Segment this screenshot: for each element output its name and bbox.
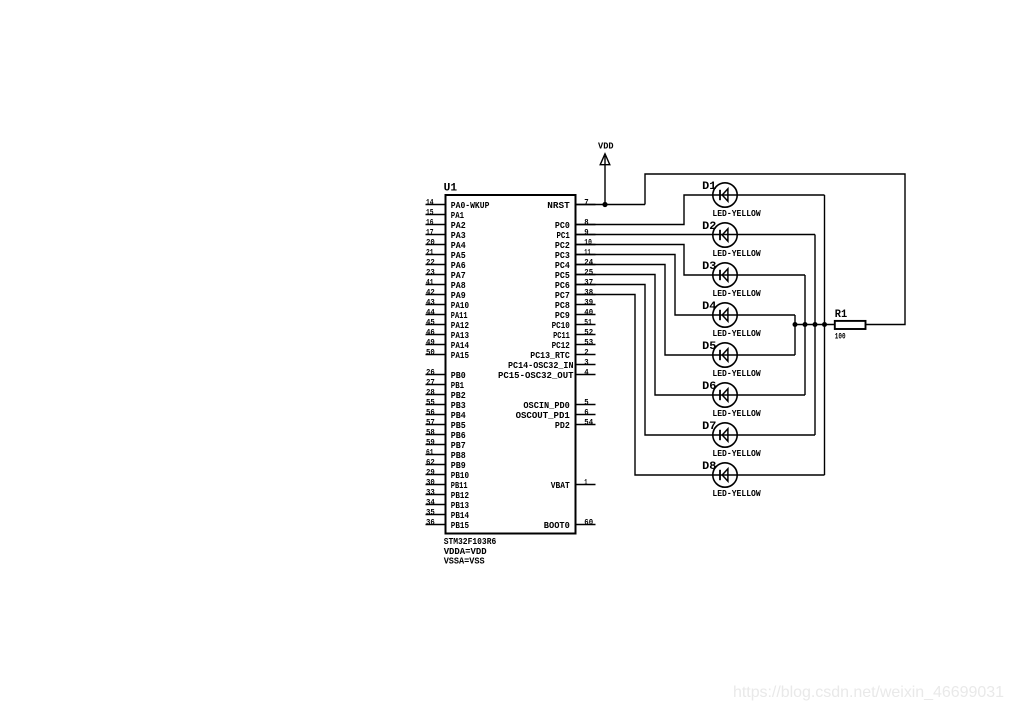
svg-text:7: 7 <box>584 198 589 207</box>
svg-text:PC12: PC12 <box>552 341 570 351</box>
svg-text:PB10: PB10 <box>451 471 469 481</box>
svg-text:PC9: PC9 <box>555 311 570 321</box>
U1 pin 1 (VBAT) <box>551 478 596 491</box>
U1 pin 53 (PC12) <box>552 338 596 351</box>
svg-text:20: 20 <box>426 238 435 247</box>
svg-text:LED-YELLOW: LED-YELLOW <box>712 409 761 419</box>
svg-text:22: 22 <box>426 258 435 267</box>
svg-text:PA9: PA9 <box>451 291 466 301</box>
U1 pin 41 (PA8) <box>426 278 466 291</box>
resistor R1 <box>835 321 866 329</box>
wire PC5 pin to LED D6 anode <box>576 275 806 396</box>
U1 pin 21 (PA5) <box>426 248 466 261</box>
U1 pin 2 (PC13_RTC) <box>530 348 595 361</box>
svg-text:PB2: PB2 <box>451 391 466 401</box>
wire D2/D7 cathode riser <box>814 235 816 436</box>
svg-text:33: 33 <box>426 488 435 497</box>
svg-text:VDDA=VDD: VDDA=VDD <box>444 547 488 557</box>
wire PC4 pin to LED D5 anode <box>576 265 796 356</box>
svg-text:PA7: PA7 <box>451 271 466 281</box>
svg-text:23: 23 <box>426 268 435 277</box>
svg-text:11: 11 <box>584 248 591 257</box>
U1 pin 57 (PB5) <box>426 418 466 431</box>
U1 pin 37 (PC6) <box>555 278 596 291</box>
svg-text:PC11: PC11 <box>553 331 570 341</box>
U1 pin 39 (PC8) <box>555 298 596 311</box>
svg-text:46: 46 <box>426 328 435 337</box>
svg-text:PB4: PB4 <box>451 411 466 421</box>
U1 pin 7 (NRST) <box>547 198 595 211</box>
U1 pin 62 (PB9) <box>426 458 466 471</box>
svg-text:PC15-OSC32_OUT: PC15-OSC32_OUT <box>498 371 574 381</box>
wire PC7 pin to LED D8 anode <box>576 295 825 476</box>
svg-text:OSCIN_PD0: OSCIN_PD0 <box>523 401 569 411</box>
svg-text:49: 49 <box>426 338 435 347</box>
svg-text:PC13_RTC: PC13_RTC <box>530 351 570 361</box>
svg-text:PC0: PC0 <box>555 221 570 231</box>
svg-text:D4: D4 <box>702 301 717 313</box>
wire D4/D5 cathode riser <box>794 315 796 355</box>
svg-text:6: 6 <box>584 408 589 417</box>
U1 pin 46 (PA13) <box>426 328 470 341</box>
svg-text:PC5: PC5 <box>555 271 570 281</box>
U1 pin 56 (PB4) <box>426 408 467 421</box>
svg-text:D6: D6 <box>702 381 716 393</box>
svg-text:PC14-OSC32_IN: PC14-OSC32_IN <box>508 361 574 371</box>
U1 pin 60 (BOOT0) <box>544 518 596 531</box>
svg-text:PC6: PC6 <box>555 281 570 291</box>
svg-text:PC2: PC2 <box>555 241 570 251</box>
svg-text:14: 14 <box>426 198 434 207</box>
U1 pin 61 (PB8) <box>426 448 466 461</box>
svg-text:LED-YELLOW: LED-YELLOW <box>712 449 761 459</box>
svg-text:PB7: PB7 <box>451 441 466 451</box>
svg-text:PA3: PA3 <box>451 231 466 241</box>
svg-text:38: 38 <box>584 288 593 297</box>
U1 pin 51 (PC10) <box>552 318 596 331</box>
svg-text:42: 42 <box>426 288 435 297</box>
wire D3/D6 cathode riser <box>804 275 806 395</box>
svg-text:57: 57 <box>426 418 435 427</box>
svg-text:D2: D2 <box>702 221 716 233</box>
U1 pin 34 (PB13) <box>426 498 470 511</box>
svg-text:10: 10 <box>584 238 592 247</box>
microcontroller U1 STM32F103R6 body <box>446 195 576 534</box>
svg-text:STM32F103R6: STM32F103R6 <box>444 537 497 547</box>
svg-text:PA2: PA2 <box>451 221 466 231</box>
U1 pin 11 (PC3) <box>555 248 596 261</box>
svg-text:OSCOUT_PD1: OSCOUT_PD1 <box>516 411 571 421</box>
svg-text:9: 9 <box>584 228 589 237</box>
svg-text:PA8: PA8 <box>451 281 466 291</box>
U1 pin 54 (PD2) <box>555 418 596 431</box>
LED D5 <box>713 343 737 367</box>
svg-text:NRST: NRST <box>547 201 570 211</box>
svg-text:59: 59 <box>426 438 435 447</box>
svg-text:PA5: PA5 <box>451 251 466 261</box>
svg-text:34: 34 <box>426 498 435 507</box>
svg-text:PA1: PA1 <box>451 211 465 221</box>
U1 pin 10 (PC2) <box>555 238 596 251</box>
svg-text:PB3: PB3 <box>451 401 466 411</box>
svg-text:30: 30 <box>426 478 435 487</box>
svg-text:26: 26 <box>426 368 435 377</box>
svg-text:D5: D5 <box>702 341 717 353</box>
junction dot cathode bus x=815 <box>813 322 818 327</box>
power symbol VDD <box>598 142 614 205</box>
U1 pin 49 (PA14) <box>426 338 470 351</box>
svg-text:PB9: PB9 <box>451 461 466 471</box>
svg-text:D1: D1 <box>702 181 717 193</box>
wire D1/D8 cathode riser <box>824 195 826 475</box>
U1 pin 36 (PB15) <box>426 518 470 531</box>
svg-text:PC10: PC10 <box>552 321 570 331</box>
svg-text:PB5: PB5 <box>451 421 466 431</box>
svg-text:3: 3 <box>584 358 589 367</box>
svg-text:53: 53 <box>584 338 593 347</box>
svg-text:PB15: PB15 <box>451 521 469 531</box>
svg-text:PC3: PC3 <box>555 251 570 261</box>
svg-text:16: 16 <box>426 218 434 227</box>
svg-text:17: 17 <box>426 228 434 237</box>
wire PC1 pin to LED D2 anode <box>576 234 816 236</box>
LED D4 <box>713 303 737 327</box>
svg-text:PC4: PC4 <box>555 261 570 271</box>
svg-text:39: 39 <box>584 298 593 307</box>
U1 pin 14 (PA0-WKUP) <box>426 198 490 211</box>
svg-text:58: 58 <box>426 428 435 437</box>
svg-text:51: 51 <box>584 318 592 327</box>
U1 pin 25 (PC5) <box>555 268 596 281</box>
svg-text:25: 25 <box>584 268 593 277</box>
U1 pin 22 (PA6) <box>426 258 466 271</box>
U1 pin 29 (PB10) <box>426 468 470 481</box>
svg-text:R1: R1 <box>835 309 848 321</box>
svg-text:U1: U1 <box>444 182 458 194</box>
U1 pin 26 (PB0) <box>426 368 466 381</box>
svg-text:61: 61 <box>426 448 434 457</box>
svg-text:2: 2 <box>584 348 589 357</box>
LED D3 <box>713 263 737 287</box>
svg-text:27: 27 <box>426 378 435 387</box>
wire NRST pin7 to VDD junction to riser <box>576 204 646 206</box>
svg-text:36: 36 <box>426 518 435 527</box>
svg-text:PB6: PB6 <box>451 431 466 441</box>
svg-text:LED-YELLOW: LED-YELLOW <box>712 329 761 339</box>
U1 pin 9 (PC1) <box>557 228 596 241</box>
U1 pin 59 (PB7) <box>426 438 466 451</box>
U1 pin 43 (PA10) <box>426 298 470 311</box>
wire PC6 pin to LED D7 anode <box>576 285 816 436</box>
svg-text:5: 5 <box>584 398 589 407</box>
svg-text:PB13: PB13 <box>451 501 469 511</box>
U1 pin 30 (PB11) <box>426 478 468 491</box>
svg-text:LED-YELLOW: LED-YELLOW <box>712 489 761 499</box>
svg-text:https://blog.csdn.net/weixin_4: https://blog.csdn.net/weixin_46699031 <box>733 684 1004 701</box>
junction dot VDD / NRST net <box>602 202 607 207</box>
U1 pin 16 (PA2) <box>426 218 466 231</box>
U1 pin 5 (OSCIN_PD0) <box>523 398 595 411</box>
wire VDD net top loop to R1 right terminal <box>645 174 905 325</box>
svg-text:PC1: PC1 <box>557 231 571 241</box>
U1 pin 4 (PC15-OSC32_OUT) <box>498 368 596 381</box>
wire PC2 pin to LED D3 anode <box>576 245 806 276</box>
svg-text:35: 35 <box>426 508 435 517</box>
svg-text:8: 8 <box>584 218 589 227</box>
svg-text:15: 15 <box>426 208 434 217</box>
svg-text:PA12: PA12 <box>451 321 469 331</box>
svg-text:PA14: PA14 <box>451 341 470 351</box>
svg-text:54: 54 <box>584 418 593 427</box>
svg-text:28: 28 <box>426 388 435 397</box>
LED D8 <box>713 463 737 487</box>
U1 pin 44 (PA11) <box>426 308 468 321</box>
U1 pin 28 (PB2) <box>426 388 466 401</box>
junction dot cathode bus x=795 <box>793 322 798 327</box>
svg-text:PA4: PA4 <box>451 241 466 251</box>
svg-text:62: 62 <box>426 458 435 467</box>
U1 pin 27 (PB1) <box>426 378 465 391</box>
U1 pin 55 (PB3) <box>426 398 466 411</box>
svg-text:LED-YELLOW: LED-YELLOW <box>712 289 761 299</box>
svg-text:45: 45 <box>426 318 435 327</box>
U1 pin 8 (PC0) <box>555 218 596 231</box>
svg-text:41: 41 <box>426 278 434 287</box>
svg-text:PD2: PD2 <box>555 421 570 431</box>
svg-text:D8: D8 <box>702 461 717 473</box>
svg-text:50: 50 <box>426 348 435 357</box>
svg-text:D7: D7 <box>702 421 716 433</box>
U1 pin 52 (PC11) <box>553 328 595 341</box>
svg-text:PA13: PA13 <box>451 331 469 341</box>
svg-text:BOOT0: BOOT0 <box>544 521 570 531</box>
svg-text:PC8: PC8 <box>555 301 570 311</box>
svg-text:PA10: PA10 <box>451 301 469 311</box>
svg-text:1: 1 <box>584 478 587 487</box>
LED D1 <box>713 183 737 207</box>
svg-text:PB8: PB8 <box>451 451 466 461</box>
svg-text:4: 4 <box>584 368 589 377</box>
svg-text:55: 55 <box>426 398 435 407</box>
svg-text:PA0-WKUP: PA0-WKUP <box>451 201 490 211</box>
U1 pin 50 (PA15) <box>426 348 470 361</box>
svg-text:29: 29 <box>426 468 435 477</box>
svg-text:PB1: PB1 <box>451 381 465 391</box>
U1 pin 17 (PA3) <box>426 228 466 241</box>
svg-text:100: 100 <box>835 332 846 341</box>
U1 pin 3 (PC14-OSC32_IN) <box>508 358 596 371</box>
svg-text:PB0: PB0 <box>451 371 466 381</box>
U1 pin 45 (PA12) <box>426 318 470 331</box>
svg-text:PB12: PB12 <box>451 491 469 501</box>
svg-text:PA15: PA15 <box>451 351 469 361</box>
LED D7 <box>713 423 737 447</box>
svg-text:37: 37 <box>584 278 593 287</box>
U1 pin 58 (PB6) <box>426 428 466 441</box>
svg-text:43: 43 <box>426 298 435 307</box>
svg-text:21: 21 <box>426 248 434 257</box>
svg-text:LED-YELLOW: LED-YELLOW <box>712 369 761 379</box>
U1 pin 38 (PC7) <box>555 288 596 301</box>
svg-text:LED-YELLOW: LED-YELLOW <box>712 249 761 259</box>
svg-text:VBAT: VBAT <box>551 481 571 491</box>
svg-text:60: 60 <box>584 518 593 527</box>
wire cathode bus to R1 left terminal <box>795 324 835 326</box>
svg-text:52: 52 <box>584 328 593 337</box>
wire PC3 pin to LED D4 anode <box>576 255 796 316</box>
U1 pin 24 (PC4) <box>555 258 596 271</box>
U1 pin 40 (PC9) <box>555 308 596 321</box>
svg-text:PB11: PB11 <box>451 481 468 491</box>
svg-text:D3: D3 <box>702 261 717 273</box>
svg-text:LED-YELLOW: LED-YELLOW <box>712 209 761 219</box>
U1 pin 23 (PA7) <box>426 268 466 281</box>
svg-text:VSSA=VSS: VSSA=VSS <box>444 557 486 567</box>
U1 pin 6 (OSCOUT_PD1) <box>516 408 596 421</box>
LED D2 <box>713 223 737 247</box>
U1 pin 20 (PA4) <box>426 238 467 251</box>
svg-text:PA6: PA6 <box>451 261 466 271</box>
junction dot cathode bus x=805 <box>803 322 808 327</box>
svg-text:40: 40 <box>584 308 593 317</box>
LED D6 <box>713 383 737 407</box>
svg-text:PA11: PA11 <box>451 311 468 321</box>
U1 pin 42 (PA9) <box>426 288 466 301</box>
junction dot cathode bus x=824.5 <box>822 322 827 327</box>
wire PC0 pin to LED D1 anode <box>576 195 825 225</box>
U1 pin 15 (PA1) <box>426 208 465 221</box>
svg-text:56: 56 <box>426 408 435 417</box>
svg-text:44: 44 <box>426 308 435 317</box>
U1 pin 33 (PB12) <box>426 488 470 501</box>
svg-text:PB14: PB14 <box>451 511 470 521</box>
svg-text:VDD: VDD <box>598 142 614 152</box>
svg-text:24: 24 <box>584 258 593 267</box>
U1 pin 35 (PB14) <box>426 508 470 521</box>
svg-text:PC7: PC7 <box>555 291 570 301</box>
